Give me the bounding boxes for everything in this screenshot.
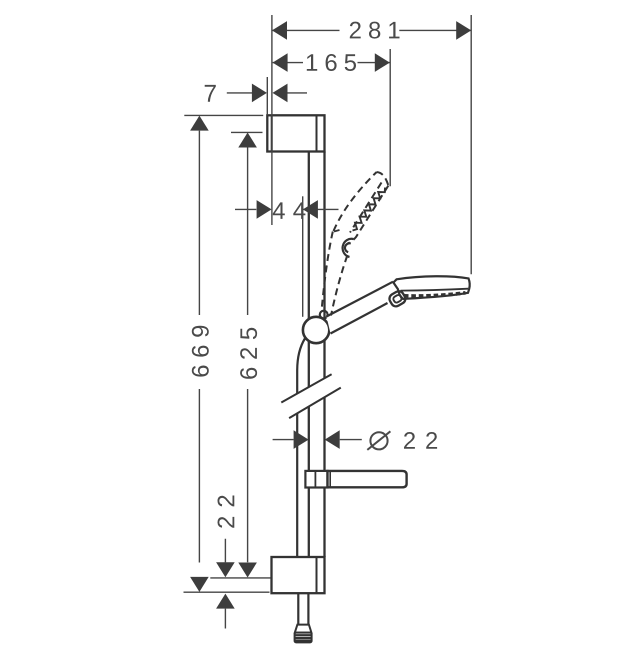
head band line [401, 289, 469, 291]
dashed handle edges [322, 232, 348, 316]
diameter22 left (pointing right) [294, 430, 309, 449]
label 165 [307, 54, 356, 71]
669 bottom (down) [190, 577, 209, 592]
7 left (pointing right) [252, 84, 267, 103]
label 22 after diameter [404, 432, 437, 449]
label 625 rotated [240, 328, 257, 379]
dim line diameter 22 [273, 439, 362, 441]
extension line 281 right [470, 15, 472, 274]
44 right (pointing left) [303, 200, 318, 219]
extension line 44 right [302, 196, 304, 316]
extension 625 top [231, 131, 263, 133]
44 left (pointing right) [257, 200, 272, 219]
rail (wall bar) [309, 152, 325, 558]
label 281 [350, 22, 400, 39]
label 22 rotated [218, 496, 235, 528]
dim line 165 [273, 62, 390, 64]
165 right [375, 53, 390, 72]
dim line 669 vertical [198, 131, 200, 563]
dim line 44 [235, 208, 339, 210]
hose below bracket [298, 593, 308, 624]
dashed shower head (raised position) [334, 172, 389, 243]
165 left [273, 53, 288, 72]
dashed head corner tick [334, 230, 340, 232]
extension line B (7 right / 281 left / 44 left) [271, 15, 273, 225]
625 bottom (down) [238, 563, 257, 578]
dimension texts [192, 22, 437, 528]
extension line 7 left [266, 77, 268, 115]
diameter22 right (pointing left) [325, 430, 340, 449]
7 right (pointing left) [273, 84, 288, 103]
281 left [272, 21, 287, 40]
slider knob tab [320, 311, 328, 319]
dim line 7 leaders [227, 92, 307, 94]
dim line 281 [273, 29, 471, 31]
label 7 [205, 85, 216, 102]
22 top (down) [216, 562, 235, 577]
soap dish arm [328, 471, 407, 487]
break mark slashes [281, 374, 341, 418]
hand shower head (solid) [393, 276, 469, 299]
dashed head spray squiggle [353, 188, 386, 231]
hose nut ribbed [295, 633, 312, 643]
dashed shower collar curl [343, 239, 354, 257]
625 top (up) [238, 133, 257, 148]
extension 669 bottom [184, 591, 270, 593]
669 top (up) [190, 116, 209, 131]
dim line 22 vertical [224, 539, 226, 629]
281 right [456, 21, 471, 40]
inlet collar [388, 289, 407, 308]
label 669 rotated [192, 326, 209, 377]
hose connector cone [295, 625, 312, 633]
arrowheads [190, 21, 471, 609]
extension 625 bottom [210, 577, 270, 579]
extension 669 top [184, 114, 263, 116]
diameter symbol [367, 431, 390, 450]
top wall bracket [267, 115, 324, 151]
hand shower handle (solid) [327, 282, 398, 334]
dim line 625 vertical [247, 148, 249, 563]
label 44 [273, 202, 306, 219]
slider knob [303, 317, 329, 343]
bottom wall bracket [272, 557, 325, 593]
extension line 165 right [389, 49, 391, 186]
soap dish slider block [305, 471, 327, 488]
22 bottom (up) [216, 594, 235, 609]
nozzle row [404, 293, 466, 296]
hose upper run [297, 339, 305, 558]
